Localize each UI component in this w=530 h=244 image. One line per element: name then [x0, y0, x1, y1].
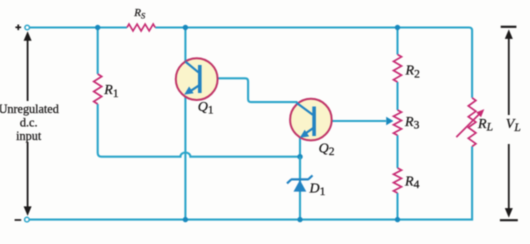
- wire Q2 base to R3 wiper: [316, 120, 386, 122]
- wire top rail right segment and right drop to RL: [155, 28, 472, 98]
- resistor R1: [94, 74, 102, 104]
- R3 wiper arrowhead: [386, 117, 393, 125]
- wire R2 top lead: [396, 28, 398, 55]
- junction node R4 rail: [395, 217, 400, 222]
- zener diode D1: [287, 157, 313, 192]
- svg-text:R2: R2: [405, 64, 421, 81]
- resistor R3: [394, 110, 402, 135]
- transistor Q2: [290, 99, 332, 141]
- wire bottom rail: [29, 146, 472, 219]
- input arrow upper (up arrowhead): [27, 37, 29, 101]
- terminal plus: [25, 25, 30, 30]
- svg-text:R1: R1: [103, 83, 119, 100]
- transistor Q1: [176, 58, 218, 100]
- svg-text:Q2: Q2: [319, 141, 335, 158]
- wire Q2 emitter down to D1 node: [299, 138, 301, 220]
- wire Q1 base to Q2 collector: [202, 78, 298, 102]
- junction node Q1 collector: [183, 25, 188, 30]
- resistor R4: [394, 168, 402, 193]
- svg-text:Q1: Q1: [198, 100, 214, 117]
- svg-text:VL: VL: [506, 117, 521, 134]
- junction node Q1 emitter rail: [183, 217, 188, 222]
- terminal minus: [25, 217, 30, 222]
- resistor RL variable load: [456, 98, 484, 147]
- svg-text:RS: RS: [133, 7, 146, 20]
- svg-text:Unregulated: Unregulated: [0, 102, 59, 116]
- wire Q1 emitter down to bottom rail: [184, 97, 186, 220]
- wire R1 bottom lead with corner and hop over Q1 emitter wire: [98, 104, 300, 157]
- svg-text:RL: RL: [477, 117, 493, 134]
- wire top rail left segment: [30, 26, 128, 28]
- svg-text:D1: D1: [309, 181, 326, 198]
- VL measurement double arrow: [500, 27, 518, 220]
- wire R4 bottom lead: [396, 193, 398, 220]
- wire R3-R4 link: [396, 135, 398, 168]
- svg-text:R3: R3: [404, 115, 420, 132]
- junction node R1/D1/Q2 emitter: [297, 154, 302, 159]
- junction node R2 top: [395, 25, 400, 30]
- svg-text:R4: R4: [404, 174, 420, 191]
- resistor Rs: [127, 24, 155, 31]
- wire R1 top lead: [97, 28, 99, 75]
- junction node D1 rail: [297, 217, 302, 222]
- junction node R1 top: [95, 25, 100, 30]
- input arrow lower (down arrowhead): [27, 142, 29, 210]
- wire Q1 collector from top rail: [184, 28, 186, 63]
- svg-text:input: input: [16, 129, 42, 143]
- wire R2-R3 link: [396, 82, 398, 110]
- svg-text:d.c.: d.c.: [20, 116, 38, 130]
- resistor R2: [394, 55, 402, 83]
